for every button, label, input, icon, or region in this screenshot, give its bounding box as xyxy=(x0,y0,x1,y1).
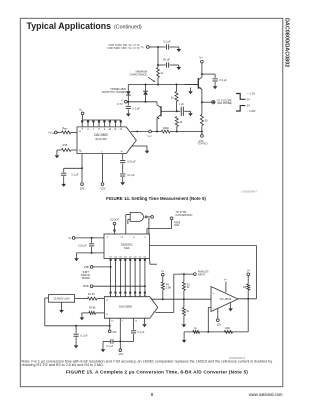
svg-text:Q6: Q6 xyxy=(114,256,117,258)
node VL input labels xyxy=(107,44,140,50)
wire comparator output xyxy=(238,298,256,300)
op-amp U4 LM319 comparator xyxy=(211,287,238,312)
terminal VB xyxy=(79,108,84,120)
terminal VL xyxy=(141,45,149,50)
resistor R4 2.5M xyxy=(161,276,171,299)
wire xyxy=(77,252,105,256)
svg-text:0V: 0V xyxy=(247,105,250,108)
wire xyxy=(201,63,203,75)
svg-text:12: 12 xyxy=(120,129,123,131)
svg-text:R15: R15 xyxy=(63,144,68,147)
svg-text:(DAC-08): (DAC-08) xyxy=(95,137,106,141)
page frame xyxy=(20,18,283,386)
capacitor 0.1uF xyxy=(120,174,135,180)
ground xyxy=(182,332,187,343)
terminal VTH xyxy=(117,99,127,106)
svg-text:6: 6 xyxy=(87,129,89,131)
svg-text:REF: REF xyxy=(64,129,68,131)
terminal V+ SAR xyxy=(68,236,104,240)
label pin 13 xyxy=(79,151,82,153)
svg-text:V+: V+ xyxy=(224,279,228,282)
ground pin 4 output xyxy=(132,146,149,154)
svg-text:0.1 μF: 0.1 μF xyxy=(132,106,140,110)
svg-text:−15V: −15V xyxy=(117,353,123,356)
resistor R2 5k xyxy=(82,307,105,315)
resistor RREF xyxy=(57,127,77,134)
wire rail xyxy=(128,84,198,86)
ground xyxy=(61,182,66,187)
resistor 2k xyxy=(175,117,183,132)
resistor R3 5k xyxy=(182,299,189,322)
resistor 1k xyxy=(193,327,200,334)
svg-text:16: 16 xyxy=(135,320,138,322)
svg-text:0.1 μF: 0.1 μF xyxy=(106,345,113,348)
svg-text:0.1 μF: 0.1 μF xyxy=(138,331,145,334)
svg-text:1/2 LM319: 1/2 LM319 xyxy=(220,298,232,301)
label pin 16 xyxy=(135,320,138,322)
op-amp U1 DAC0800 body xyxy=(77,127,136,154)
svg-text:Q3: Q3 xyxy=(129,256,132,258)
svg-text:FOR TURN ‘OFF’: VL = 0.7V: FOR TURN ‘OFF’: VL = 0.7V xyxy=(107,47,140,50)
svg-text:R4: R4 xyxy=(243,286,247,289)
node scope output xyxy=(201,99,232,105)
svg-text:Typical Applications: Typical Applications xyxy=(27,21,112,31)
wire output rail xyxy=(131,127,203,138)
label pin 2 xyxy=(151,298,153,300)
terminal 15V xyxy=(80,168,85,190)
terminal LSB xyxy=(84,266,112,269)
ground xyxy=(182,322,187,327)
svg-text:100Ω: 100Ω xyxy=(163,127,169,130)
transistor Q1 xyxy=(185,74,202,102)
svg-text:RUN: RUN xyxy=(174,225,179,227)
wire xyxy=(157,47,159,66)
capacitor C1 0.1uF xyxy=(158,40,177,50)
label pin 4 xyxy=(129,147,131,149)
capacitor 0.1uF comp xyxy=(120,318,145,341)
svg-text:L: L xyxy=(143,48,145,50)
svg-text:reducing R1, R2 and R3 to 2.5: reducing R1, R2 and R3 to 2.5 kΩ and R4 … xyxy=(22,363,104,367)
svg-text:LSB: LSB xyxy=(84,266,89,269)
svg-text:DAC0800/DAC0802: DAC0800/DAC0802 xyxy=(284,18,290,67)
ground xyxy=(228,302,233,311)
terminal analog input xyxy=(193,269,208,276)
wire reference rail xyxy=(45,298,111,327)
resistor 100k xyxy=(224,327,232,334)
svg-text:13: 13 xyxy=(111,320,114,322)
ground xyxy=(74,343,79,348)
svg-text:CAPACITANCE: CAPACITANCE xyxy=(129,74,147,77)
wire xyxy=(149,46,159,48)
label pin 15 xyxy=(106,314,109,316)
wire pin 13 xyxy=(109,318,111,326)
ground xyxy=(74,256,79,261)
svg-text:1k: 1k xyxy=(160,72,163,75)
svg-text:DS005686-7: DS005686-7 xyxy=(241,189,258,193)
ground xyxy=(101,347,106,352)
svg-text:0.1 μF: 0.1 μF xyxy=(71,173,79,176)
wire bit lines xyxy=(111,261,145,292)
svg-text:0.1 μF: 0.1 μF xyxy=(219,78,227,82)
svg-text:S: S xyxy=(107,237,109,239)
ground xyxy=(188,111,193,116)
capacitor 0.01uF SAR bypass xyxy=(78,238,94,253)
svg-text:MSB: MSB xyxy=(83,285,89,288)
resistor R15 xyxy=(57,144,77,151)
node bit input pins B1-B8 xyxy=(81,120,122,127)
terminal -15V scope xyxy=(198,132,209,146)
label minimum capacitance xyxy=(129,71,155,82)
svg-text:5k: 5k xyxy=(187,286,190,289)
ground xyxy=(55,150,60,158)
svg-text:0.01 μF: 0.01 μF xyxy=(78,245,87,248)
waveform settle high xyxy=(236,93,256,102)
capacitor 0.1uF xyxy=(74,326,89,344)
capacitor C3 0.1uF xyxy=(126,102,141,112)
label DAC pin numbers xyxy=(110,295,147,297)
wire inverting input xyxy=(208,308,211,332)
node DAC bit pins xyxy=(110,292,146,297)
svg-text:WORD: WORD xyxy=(82,276,90,280)
terminal V+ xyxy=(199,56,203,63)
capacitor C4 0.1uF xyxy=(202,74,227,84)
svg-text:1 μF: 1 μF xyxy=(179,103,185,106)
svg-text:DAC0800: DAC0800 xyxy=(94,133,108,137)
svg-text:OUT: OUT xyxy=(148,136,153,138)
svg-text:100k: 100k xyxy=(225,327,231,330)
svg-text:9: 9 xyxy=(104,129,106,131)
wire gate input xyxy=(126,215,130,235)
ground xyxy=(213,84,218,89)
capacitor 1uF xyxy=(177,103,189,116)
label pin 15 xyxy=(79,150,82,152)
wire bottom rail xyxy=(184,331,248,333)
terminal V+ R4a xyxy=(161,270,165,276)
svg-text:CONVERSION: CONVERSION xyxy=(175,214,192,217)
ground xyxy=(59,302,64,313)
label pin 16 xyxy=(120,151,123,153)
ground pin 4 xyxy=(142,318,147,327)
svg-text:2.5M: 2.5M xyxy=(166,286,171,289)
svg-text:10.000V ±1%: 10.000V ±1% xyxy=(53,297,70,301)
waveform settle low xyxy=(236,105,256,113)
op-amp U3 DAC0800 body xyxy=(104,297,157,319)
label 8-bit digital word xyxy=(81,270,91,280)
svg-text:1k: 1k xyxy=(194,327,197,330)
wire node rail xyxy=(127,101,157,103)
capacitor C2 50uF xyxy=(158,58,177,68)
label pin 3 xyxy=(101,151,103,153)
svg-text:DAC0800: DAC0800 xyxy=(119,304,132,308)
ground xyxy=(120,180,125,185)
svg-text:V+: V+ xyxy=(199,56,203,60)
svg-text:15V: 15V xyxy=(80,188,85,191)
wire gate feedback xyxy=(128,218,149,234)
node 10V reference source xyxy=(49,295,75,303)
svg-text:0.1 μF: 0.1 μF xyxy=(163,40,171,44)
svg-text:FIGURE 14. Settling Time Measu: FIGURE 14. Settling Time Measurement (No… xyxy=(106,196,206,201)
label pin 14 xyxy=(79,131,82,133)
terminal stop conversion xyxy=(147,211,192,234)
svg-text:5: 5 xyxy=(82,129,84,131)
terminal -15V xyxy=(100,154,106,191)
label V+ comparator xyxy=(224,279,228,293)
terminal +VREF xyxy=(48,131,57,136)
capacitor 0.1uF bypass xyxy=(61,168,79,182)
resistor 1k min-cap node xyxy=(157,65,164,85)
svg-text:Q2: Q2 xyxy=(134,256,137,258)
svg-text:FIGURE 15. A Complete 2 μs Con: FIGURE 15. A Complete 2 μs Conversion Ti… xyxy=(66,369,248,375)
svg-text:V+: V+ xyxy=(68,236,72,240)
svg-text:— 2.5V: — 2.5V xyxy=(247,93,256,96)
terminal V+ pullup xyxy=(247,269,251,275)
terminal MSB xyxy=(83,285,146,288)
svg-text:TO PIN 3: TO PIN 3 xyxy=(198,143,209,146)
svg-text:8: 8 xyxy=(151,392,154,397)
transistor Q2 xyxy=(157,102,177,132)
svg-text:10: 10 xyxy=(109,129,112,131)
wire hysteresis xyxy=(247,299,249,332)
svg-text:− 0.45V: − 0.45V xyxy=(247,110,256,113)
diode D1 HP5082-2800 xyxy=(126,85,131,102)
wire analog rail xyxy=(156,273,194,312)
svg-text:50 μF: 50 μF xyxy=(163,58,170,62)
gate NAND clock xyxy=(130,212,153,221)
label pin 3 xyxy=(122,321,124,323)
svg-text:0.1 μF: 0.1 μF xyxy=(127,174,135,177)
svg-text:0.01 μF: 0.01 μF xyxy=(127,160,136,163)
svg-text:13: 13 xyxy=(79,151,82,153)
svg-text:15V: 15V xyxy=(112,331,117,334)
ground xyxy=(177,47,182,52)
resistor R1 5k xyxy=(75,293,105,300)
ground xyxy=(126,112,131,117)
svg-text:Q5: Q5 xyxy=(119,256,122,258)
svg-text:16: 16 xyxy=(120,151,123,153)
svg-text:3: 3 xyxy=(101,151,103,153)
svg-text:1k: 1k xyxy=(171,96,174,100)
svg-text:D: D xyxy=(145,237,147,239)
svg-text:8: 8 xyxy=(98,129,100,131)
terminal clock xyxy=(110,218,119,234)
terminal -15V xyxy=(117,349,123,356)
label pin 4 xyxy=(153,312,155,314)
svg-text:www.national.com: www.national.com xyxy=(249,392,283,397)
capacitor 0.1uF vminus xyxy=(103,339,120,348)
svg-text:−15V: −15V xyxy=(100,188,106,191)
svg-text:15: 15 xyxy=(106,314,109,316)
svg-text:11: 11 xyxy=(114,129,117,131)
svg-text:50: 50 xyxy=(205,119,208,123)
resistor 50 xyxy=(200,102,208,131)
svg-text:SAR: SAR xyxy=(124,246,130,250)
svg-text:DM2502: DM2502 xyxy=(121,242,133,246)
svg-text:(1kΩ PROBE): (1kΩ PROBE) xyxy=(217,102,232,105)
svg-text:Q0: Q0 xyxy=(144,256,147,258)
svg-text:−15V: −15V xyxy=(215,324,221,327)
svg-text:Q7: Q7 xyxy=(109,256,112,258)
wire V+ pin 13 branch xyxy=(64,154,83,170)
ground xyxy=(80,313,85,321)
svg-text:0.7V: 0.7V xyxy=(117,102,123,106)
svg-text:R1 5k: R1 5k xyxy=(88,293,95,296)
svg-text:5k: 5k xyxy=(93,307,96,310)
wire IOUT rail xyxy=(152,298,212,300)
svg-text:0.1 μF: 0.1 μF xyxy=(80,334,88,337)
svg-text:(Continued): (Continued) xyxy=(114,25,142,31)
svg-text:2k: 2k xyxy=(180,120,183,124)
label SAR output pins Q7-Q0 xyxy=(109,256,146,261)
svg-text:CP: CP xyxy=(121,237,125,239)
svg-text:14: 14 xyxy=(106,300,109,302)
svg-text:0V: 0V xyxy=(247,98,250,101)
ground xyxy=(177,65,182,70)
wire feedback to SAR xyxy=(150,245,257,298)
label pin 13 xyxy=(111,320,114,322)
svg-text:14: 14 xyxy=(79,131,82,133)
svg-text:5k: 5k xyxy=(186,310,189,313)
terminal -15V comparator xyxy=(215,309,221,327)
resistor R4 pullup xyxy=(243,275,250,298)
ground xyxy=(188,88,193,95)
capacitor 0.01uF xyxy=(120,154,136,173)
svg-text:3: 3 xyxy=(122,321,124,323)
svg-text:Q1: Q1 xyxy=(139,256,142,258)
svg-text:E: E xyxy=(134,237,136,239)
label pin numbers 5-12 xyxy=(82,129,123,131)
resistor R1b 5k xyxy=(182,274,190,299)
svg-text:SCHOTTKY DIODES: SCHOTTKY DIODES xyxy=(102,91,126,94)
label pin 14 xyxy=(106,300,109,302)
svg-text:V+: V+ xyxy=(247,269,251,272)
svg-text:+: + xyxy=(213,291,215,295)
wire pin 3 V- xyxy=(119,318,121,349)
resistor 1k xyxy=(171,85,178,113)
diode D2 HP5082-2800 xyxy=(143,85,148,102)
wire SAR pin 16 stub xyxy=(150,259,158,265)
terminal +15V xyxy=(108,326,117,334)
op-amp U2 DM2502 SAR body xyxy=(104,234,150,259)
svg-text:V+: V+ xyxy=(161,270,165,273)
label schottky diodes xyxy=(102,88,127,94)
svg-text:CLOCK: CLOCK xyxy=(110,218,119,222)
svg-text:7: 7 xyxy=(93,129,95,131)
svg-text:INPUT: INPUT xyxy=(198,273,206,277)
